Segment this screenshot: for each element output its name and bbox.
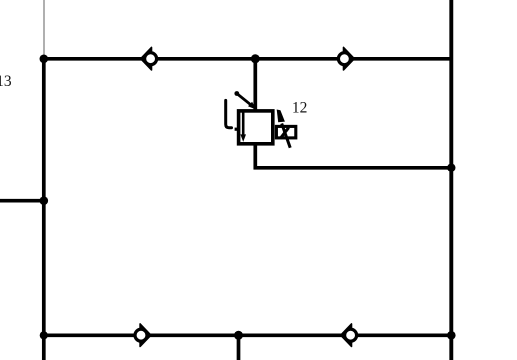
valve V12 left pilot stub xyxy=(235,128,239,131)
wire right bus V2 xyxy=(449,0,453,360)
node dot top-left xyxy=(40,55,49,64)
check valve CV3 (bottom-left, seat vertex right) xyxy=(135,324,151,347)
valve V12 body box xyxy=(239,111,273,144)
solenoid slash xyxy=(280,128,288,139)
wire thin gray feed top-left xyxy=(43,0,45,58)
wire top bus H1 xyxy=(44,57,452,61)
wire left stub H3 xyxy=(0,199,44,203)
check valve CV2 (top-right, seat vertex right) xyxy=(338,47,354,70)
check valve CV1 (top-left, seat vertex left) xyxy=(141,47,157,70)
valve V12 adjust arrow (dot start, head at box top) xyxy=(234,91,256,110)
node dot bottom-right xyxy=(447,331,456,340)
wire valve outlet to right bus xyxy=(255,144,451,168)
node dot bottom-middle xyxy=(234,331,243,340)
wire valve feed V3 xyxy=(253,59,257,111)
node dot top-middle xyxy=(251,54,260,63)
node dot outlet-right xyxy=(447,164,455,172)
wire left bus V1 xyxy=(42,59,46,360)
wire middle drop V5 xyxy=(237,335,241,360)
node dot bottom-left xyxy=(40,331,48,339)
svg-text:13: 13 xyxy=(0,73,12,90)
node dot left stub xyxy=(40,196,49,205)
solenoid box xyxy=(276,126,295,137)
wire bottom bus H4 xyxy=(44,333,452,337)
check valve CV4 (bottom-right, seat vertex left) xyxy=(341,324,357,347)
valve V12 internal flow arrow xyxy=(240,112,246,142)
svg-text:12: 12 xyxy=(292,99,308,116)
valve V12 lever L xyxy=(226,100,232,127)
solenoid proportional arrow xyxy=(277,110,291,148)
